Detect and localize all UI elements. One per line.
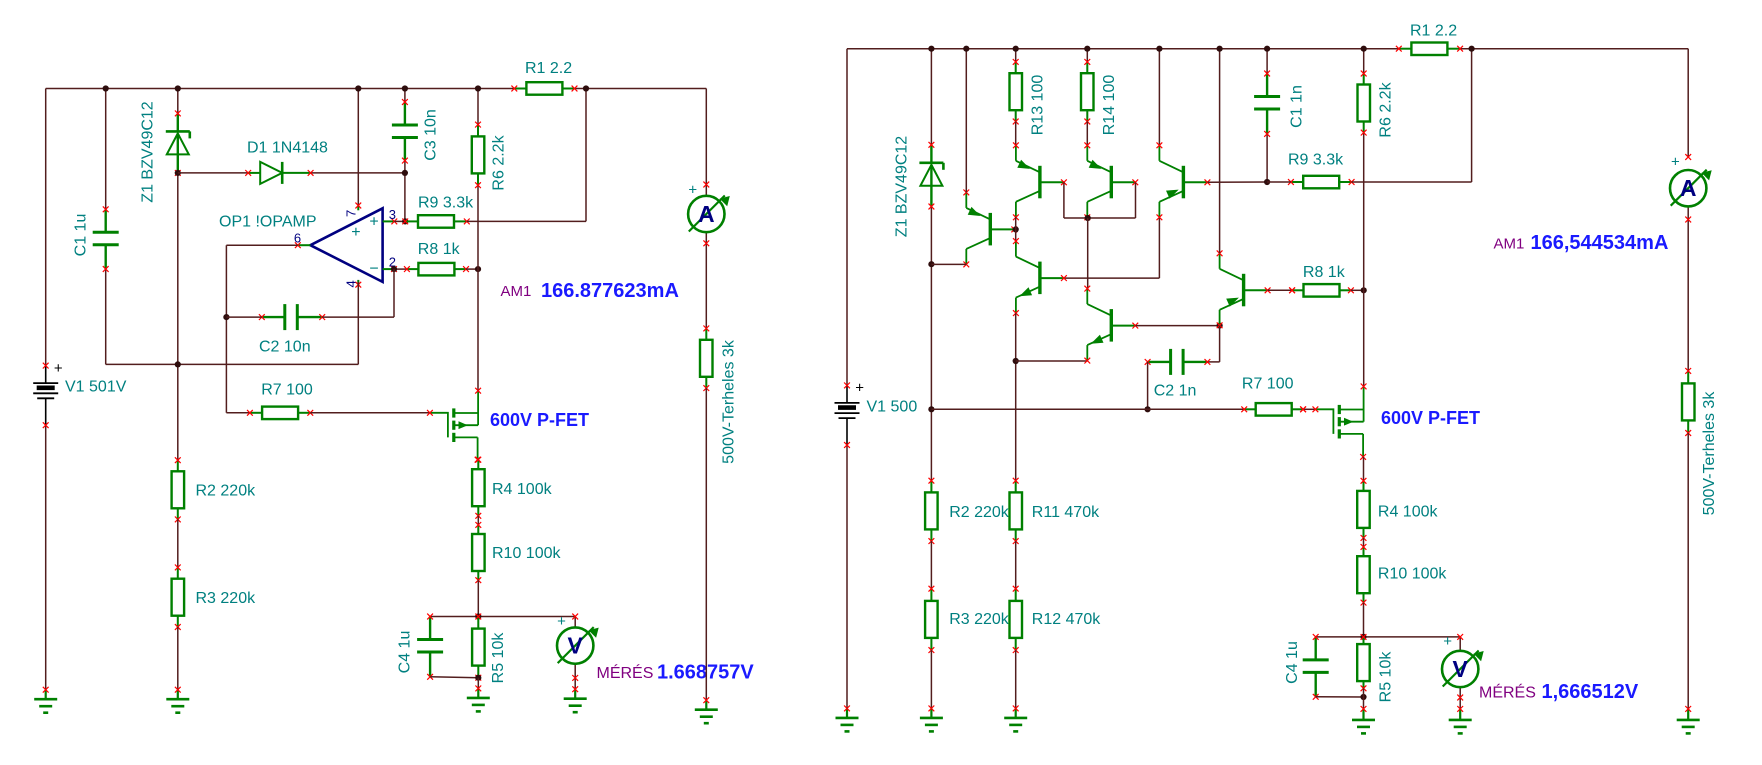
wire R4-R10 <box>477 516 479 525</box>
wire R6 column <box>477 89 479 391</box>
wire ammeter right column <box>1687 49 1689 371</box>
svg-text:R12 470k: R12 470k <box>1032 611 1101 628</box>
resistor R5 right <box>1357 634 1370 691</box>
resistor R1 right <box>1396 43 1463 56</box>
svg-text:R2 220k: R2 220k <box>949 504 1010 521</box>
wire pin3 node <box>394 220 405 222</box>
resistor R14 <box>1081 59 1094 124</box>
transistor Q3 <box>1084 142 1138 220</box>
node Z1b/R7 row <box>928 406 934 412</box>
wire R4b-R10b <box>1363 538 1365 547</box>
node pin6/C2 <box>223 314 229 320</box>
svg-text:AM1: AM1 <box>501 283 532 300</box>
wire C4b bottom <box>1316 696 1364 698</box>
resistor R12 <box>1010 586 1023 653</box>
wire R7 to FET gate <box>310 412 430 414</box>
resistor R7 right <box>1241 403 1306 416</box>
transistor Q2 <box>1013 142 1067 220</box>
svg-text:+: + <box>855 380 864 397</box>
wire top rail left circuit <box>46 88 707 90</box>
ground <box>34 687 57 713</box>
node center mirror <box>1085 215 1091 221</box>
node R8b/R6b <box>1361 287 1367 293</box>
resistor R3 right <box>925 586 938 653</box>
svg-text:V: V <box>1453 656 1469 682</box>
wire R9b to rail riser <box>1352 49 1472 182</box>
svg-text:C3 10n: C3 10n <box>423 109 440 161</box>
node rail R13 <box>1013 46 1019 52</box>
wire Q5 emitter down <box>1015 313 1017 481</box>
resistor R8 <box>404 263 469 276</box>
svg-text:Z1 BZV49C12: Z1 BZV49C12 <box>140 101 157 202</box>
zener diode Z1 <box>166 111 190 176</box>
transistor Q6 <box>1084 286 1138 364</box>
svg-text:+: + <box>369 214 378 231</box>
svg-text:500V-Terheles 3k: 500V-Terheles 3k <box>720 339 737 464</box>
op-amp OP1 <box>294 203 397 288</box>
node pin2/R8/C2 <box>391 266 397 272</box>
MOSFET 600V P-FET <box>427 388 481 463</box>
ground <box>1449 706 1472 733</box>
node rail/R9 riser <box>583 85 589 91</box>
resistor R2 <box>172 457 185 522</box>
wire C1 column <box>105 89 107 365</box>
svg-text:R8 1k: R8 1k <box>418 241 461 258</box>
svg-text:6: 6 <box>294 231 301 246</box>
wire center node down to Q6 collector <box>1087 218 1089 290</box>
svg-text:R7 100: R7 100 <box>1242 376 1294 393</box>
ground <box>695 697 718 723</box>
ground <box>1004 706 1027 732</box>
svg-text:3: 3 <box>389 207 396 222</box>
wire Q7 base lead <box>1268 289 1292 291</box>
wire pin7 column <box>357 89 359 207</box>
svg-text:D1 1N4148: D1 1N4148 <box>247 140 328 157</box>
node Q6 base/Q7 emitter <box>1217 323 1223 329</box>
wire Q2 collector down <box>1015 217 1017 242</box>
svg-text:V: V <box>568 633 584 659</box>
wire R8b to R6b column <box>1351 289 1364 291</box>
wire Q1 base node <box>1014 228 1015 230</box>
wire R10b down <box>1363 603 1365 637</box>
node Q5 emitter row <box>1013 358 1019 364</box>
svg-text:MÉRÉS: MÉRÉS <box>1479 683 1536 702</box>
svg-text:4: 4 <box>344 280 359 287</box>
svg-text:C4 1u: C4 1u <box>1284 641 1301 684</box>
svg-text:R8 1k: R8 1k <box>1303 264 1346 281</box>
resistor R7 <box>247 407 313 420</box>
svg-text:R14 100: R14 100 <box>1101 75 1118 136</box>
node R5b bottom <box>1360 694 1366 700</box>
svg-text:R5 10k: R5 10k <box>490 632 507 684</box>
wire R7b to gate <box>1303 408 1315 410</box>
node rail Q1 <box>963 46 969 52</box>
node rail R9b riser <box>1469 46 1475 52</box>
wire Q7 emitter node down to C2 <box>1207 326 1219 362</box>
svg-text:R3 220k: R3 220k <box>196 590 257 607</box>
wire pin2 node <box>394 268 407 270</box>
svg-text:R10 100k: R10 100k <box>492 545 561 562</box>
svg-text:R13 100: R13 100 <box>1029 75 1046 136</box>
svg-text:500V-Terheles 3k: 500V-Terheles 3k <box>1701 391 1718 516</box>
wire V1b column <box>846 49 848 709</box>
wire C3 column <box>404 89 406 222</box>
wire pin4 column <box>357 282 359 365</box>
node Q1 base <box>1013 226 1019 232</box>
resistor R3 <box>172 565 185 630</box>
node pin3/R9/C3 <box>402 218 408 224</box>
battery V1 <box>33 360 63 428</box>
resistor Rload 500V-Terheles <box>700 326 713 392</box>
svg-text:R3 220k: R3 220k <box>949 611 1010 628</box>
node rail/Z1 <box>175 85 181 91</box>
wire measure row right <box>1316 636 1461 638</box>
transistor Q1 <box>963 190 1017 268</box>
wire R12 ground <box>1015 650 1017 708</box>
wire D1 row <box>178 172 405 174</box>
ground <box>1677 706 1700 733</box>
wire Q1 collector to Z1 node <box>931 263 966 265</box>
resistor Rload right <box>1682 368 1695 436</box>
transistor Q7 <box>1217 250 1271 328</box>
node Z1b/Qb collector <box>928 261 934 267</box>
node rail R14 <box>1084 46 1090 52</box>
resistor R9 <box>402 215 469 228</box>
wire R5b ground <box>1363 688 1365 709</box>
wire R2b-R3b <box>930 541 932 589</box>
wire R13 to Q2 emitter <box>1015 122 1017 146</box>
node Z1/D1 <box>175 170 181 176</box>
node rail R6b <box>1361 46 1367 52</box>
capacitor C4 right <box>1303 634 1329 700</box>
voltmeter VM1 meter <box>557 627 599 664</box>
svg-text:OP1 !OPAMP: OP1 !OPAMP <box>219 214 317 231</box>
wire Q1 emitter to rail <box>965 49 967 193</box>
resistor R9 right <box>1288 176 1355 189</box>
node R5 top <box>475 613 481 619</box>
resistor R6 right <box>1358 71 1371 136</box>
svg-text:A: A <box>1680 175 1697 201</box>
node rail Q4 <box>1156 46 1162 52</box>
svg-text:R10 100k: R10 100k <box>1378 566 1447 583</box>
resistor R5 <box>472 614 485 681</box>
wire R8 to R6 column <box>466 268 478 270</box>
svg-text:R1 2.2: R1 2.2 <box>1410 23 1457 40</box>
wire voltmeter leads <box>574 617 576 690</box>
svg-text:600V P-FET: 600V P-FET <box>490 410 589 430</box>
ground <box>467 686 490 712</box>
node C1b/R9b <box>1264 179 1270 185</box>
wire Q6 base to Q7 emitter <box>1136 325 1220 327</box>
resistor R10 <box>472 522 485 583</box>
transistor Q5 <box>1013 238 1067 316</box>
wire R5 to ground <box>477 678 479 689</box>
node rail/C1 <box>103 85 109 91</box>
node R8/R6 <box>475 266 481 272</box>
svg-text:R5 10k: R5 10k <box>1377 651 1394 703</box>
MOSFET 600V P-FET right <box>1313 384 1367 460</box>
wire Q7 collector to rail <box>1219 49 1221 254</box>
wire load right ground <box>1687 433 1689 709</box>
node rail/pin7 <box>355 85 361 91</box>
svg-text:R9 3.3k: R9 3.3k <box>418 195 474 212</box>
svg-text:600V P-FET: 600V P-FET <box>1381 408 1480 428</box>
resistor R8 right <box>1289 284 1354 297</box>
diode D1 <box>245 162 313 184</box>
wire load to ground <box>705 388 707 700</box>
svg-text:C1 1n: C1 1n <box>1288 85 1305 128</box>
svg-text:C4 1u: C4 1u <box>396 631 413 674</box>
resistor R2 right <box>925 478 938 544</box>
resistor R6 <box>472 122 485 188</box>
svg-text:7: 7 <box>344 210 359 217</box>
wire Q4 collector to rail <box>1158 49 1160 146</box>
svg-text:+: + <box>351 224 360 241</box>
wire C2 left lead <box>226 316 261 318</box>
ground <box>836 706 859 732</box>
svg-text:R7 100: R7 100 <box>261 381 313 398</box>
svg-text:R6 2.2k: R6 2.2k <box>490 134 507 190</box>
node R5b top <box>1360 634 1366 640</box>
wire C2b left down <box>1147 362 1149 409</box>
wire Q4 emitter down to Q5 base <box>1064 218 1160 278</box>
node C3/D1 <box>402 170 408 176</box>
svg-text:−: − <box>369 261 378 278</box>
ground <box>920 706 943 732</box>
node rail Q7 <box>1217 46 1223 52</box>
resistor R13 <box>1010 59 1023 124</box>
svg-text:Z1 BZV49C12: Z1 BZV49C12 <box>893 136 910 237</box>
resistor R4 <box>472 457 485 519</box>
wire Q3 base riser <box>1088 182 1136 218</box>
wire top rail right circuit <box>847 48 1688 50</box>
zener diode Z1 right <box>919 142 943 210</box>
wire Q2 base to center node <box>1064 182 1088 218</box>
wire R10 down <box>477 580 479 616</box>
wire C2 to pin2 <box>322 269 394 317</box>
ground <box>564 686 587 712</box>
node R5 bottom <box>475 675 481 681</box>
wire R14 top <box>1086 49 1088 62</box>
wire Z1b column <box>930 49 932 481</box>
svg-text:V1 501V: V1 501V <box>65 379 127 396</box>
svg-text:+: + <box>1671 154 1680 171</box>
wire Q4 base to R9 row <box>1208 181 1268 183</box>
svg-text:166,544534mA: 166,544534mA <box>1531 232 1669 254</box>
resistor R10 right <box>1357 544 1370 605</box>
svg-text:+: + <box>54 360 63 377</box>
resistor R4 right <box>1357 478 1370 541</box>
wire R2-R3 <box>177 519 179 567</box>
wire gate feed row <box>931 408 1244 410</box>
svg-text:MÉRÉS: MÉRÉS <box>597 663 654 682</box>
svg-text:C2 1n: C2 1n <box>1154 383 1197 400</box>
svg-text:1,666512V: 1,666512V <box>1542 681 1639 703</box>
svg-text:C1 1u: C1 1u <box>72 214 89 257</box>
wire C1b column <box>1266 49 1268 182</box>
wire R14 to Q3 emitter <box>1086 122 1088 146</box>
wire Z1 column <box>177 89 179 461</box>
node rail C1b <box>1264 46 1270 52</box>
ammeter right meter <box>1670 170 1712 207</box>
svg-text:166.877623mA: 166.877623mA <box>541 280 679 302</box>
wire R3b ground <box>930 650 932 708</box>
wire measure row <box>430 616 575 618</box>
node rail/R6 <box>475 85 481 91</box>
svg-text:R2 220k: R2 220k <box>196 483 257 500</box>
capacitor C2 right <box>1145 349 1211 375</box>
wire R11-R12 <box>1015 541 1017 589</box>
svg-text:C2 10n: C2 10n <box>259 339 311 356</box>
svg-text:V1 500: V1 500 <box>867 398 918 415</box>
capacitor C2 <box>259 304 325 330</box>
ground <box>166 687 189 713</box>
wire R6b column <box>1363 49 1365 387</box>
ground <box>1352 706 1375 733</box>
node rail/C3 <box>402 85 408 91</box>
wire R3 to ground <box>177 627 179 690</box>
voltmeter right meter <box>1442 651 1484 688</box>
svg-text:R9 3.3k: R9 3.3k <box>1288 152 1344 169</box>
wire FETb source to R4b <box>1363 457 1365 481</box>
transistor Q4 <box>1157 142 1211 220</box>
capacitor C1 right <box>1254 71 1280 137</box>
resistor R1 <box>511 82 577 95</box>
capacitor C1 <box>93 206 119 271</box>
battery V1 right <box>835 380 865 448</box>
wire C1 node lead <box>1267 181 1291 183</box>
capacitor C3 <box>392 99 418 163</box>
svg-text:A: A <box>698 201 715 227</box>
svg-text:R4 100k: R4 100k <box>492 481 553 498</box>
svg-text:R1 2.2: R1 2.2 <box>525 60 572 77</box>
wire pin6 feedback column <box>226 245 297 413</box>
node C2b/R7b row <box>1145 406 1151 412</box>
wire R9 to rail riser <box>467 89 586 222</box>
svg-text:R11 470k: R11 470k <box>1032 504 1100 521</box>
resistor R11 <box>1010 478 1023 544</box>
svg-text:R6 2.2k: R6 2.2k <box>1377 81 1394 137</box>
svg-text:R4 100k: R4 100k <box>1378 504 1439 521</box>
wire ammeter column <box>705 89 707 329</box>
wire C4 bottom <box>430 676 478 679</box>
wire negative feedback row <box>106 363 359 365</box>
wire V1 column <box>45 89 47 690</box>
wire emitter row to Q6 <box>1016 360 1088 362</box>
wire voltmeter right leads <box>1459 637 1461 709</box>
ammeter AM1 meter <box>688 196 730 233</box>
svg-text:AM1: AM1 <box>1494 236 1525 253</box>
capacitor C4 <box>417 614 443 680</box>
svg-text:+: + <box>1443 633 1452 650</box>
node rail/Z1b <box>928 46 934 52</box>
node R2 top <box>175 361 181 367</box>
svg-text:+: + <box>557 613 566 630</box>
svg-text:+: + <box>688 181 697 198</box>
wire R13 top <box>1015 49 1017 62</box>
